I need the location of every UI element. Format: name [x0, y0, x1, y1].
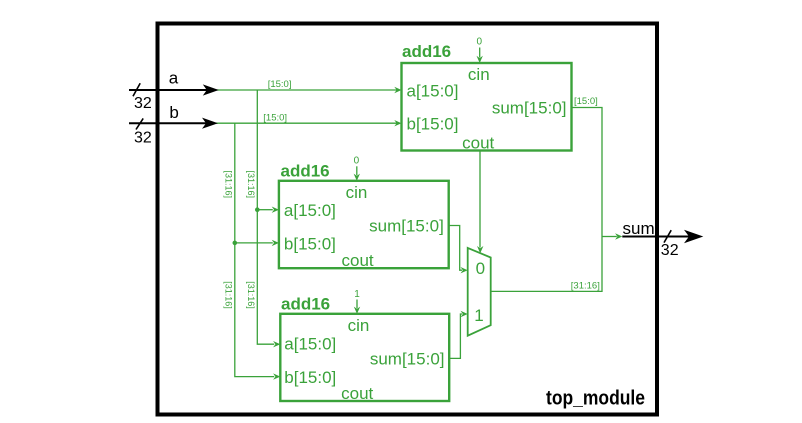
svg-text:1: 1: [354, 289, 360, 300]
outer border of top_module: [158, 24, 658, 415]
adder U1 type label add16: [402, 42, 451, 61]
svg-text:a[15:0]: a[15:0]: [407, 82, 459, 101]
wire label [31:16] on mux output wire: [571, 281, 600, 292]
svg-text:sum: sum: [623, 219, 655, 238]
input port a stub wire: [129, 84, 219, 95]
output bus-width label 32: [661, 242, 679, 259]
wire U3.sum to mux input 1: [449, 311, 468, 359]
pin label U1 cout: [462, 134, 494, 153]
wire label [15:0] on a wire: [268, 79, 292, 90]
pin label U3 cout: [341, 384, 373, 403]
svg-text:[31:16]: [31:16]: [571, 281, 600, 292]
input port a label: [169, 69, 179, 88]
output port sum label: [623, 219, 655, 238]
svg-text:add16: add16: [281, 161, 330, 180]
input a bus-width label 32: [134, 95, 152, 112]
wire b[31:16] vertical from b wire down to U3.b: [235, 123, 280, 380]
pin label U3 a[15:0]: [284, 334, 336, 353]
input b bus-width label 32: [134, 129, 152, 146]
svg-text:sum[15:0]: sum[15:0]: [369, 217, 444, 236]
pin label U3 b[15:0]: [284, 368, 336, 387]
mux M1 input label 1: [474, 306, 483, 325]
svg-text:b: b: [169, 103, 178, 122]
svg-text:[31:16]: [31:16]: [224, 281, 234, 309]
pin label U1 sum[15:0]: [492, 99, 567, 118]
constant 1 driving U3.cin: [354, 289, 360, 300]
wire label [15:0] on U1.sum wire: [574, 96, 598, 107]
svg-text:cin: cin: [468, 65, 490, 84]
wire constant 0 to U1.cin: [477, 48, 483, 64]
wire label [31:16] lower on a[31:16] line: [246, 281, 256, 309]
junction on a[31:16] line at U2.a branch: [255, 207, 260, 212]
wire label [31:16] lower on b[31:16] line: [224, 281, 234, 309]
pin label U2 cin: [346, 183, 368, 202]
svg-text:[15:0]: [15:0]: [574, 96, 598, 107]
pin label U3 sum[15:0]: [370, 350, 445, 369]
svg-text:add16: add16: [402, 42, 451, 61]
wire constant 1 to U3.cin: [354, 300, 360, 314]
constant 0 driving U2.cin: [354, 156, 360, 167]
wire branch a[31:16] to U2.a: [257, 207, 279, 213]
wire U2.sum to mux input 0: [449, 226, 468, 274]
pin label U1 b[15:0]: [407, 115, 459, 134]
output port sum stub wire: [622, 230, 703, 243]
pin label U2 cout: [342, 251, 374, 270]
pin label U1 cin: [468, 65, 490, 84]
wire label [15:0] on b wire: [263, 113, 287, 124]
wire b[15:0] from input b to U1.b: [212, 120, 402, 126]
wire label [31:16] upper on a[31:16] line: [246, 171, 256, 199]
junction on b[31:16] line at U2.b branch: [233, 241, 238, 246]
svg-text:b[15:0]: b[15:0]: [407, 115, 459, 134]
wire mux output [31:16] to output join: [491, 237, 602, 292]
pin label U2 a[15:0]: [284, 201, 336, 220]
adder U3 add16 (bottom) box: [280, 314, 449, 401]
wire join to output port sum: [602, 233, 622, 239]
svg-text:a[15:0]: a[15:0]: [284, 201, 336, 220]
svg-text:cout: cout: [462, 134, 494, 153]
svg-text:0: 0: [354, 156, 360, 167]
svg-text:[31:16]: [31:16]: [224, 171, 234, 199]
svg-text:cout: cout: [341, 384, 373, 403]
pin label U2 b[15:0]: [284, 234, 336, 253]
svg-text:a: a: [169, 69, 179, 88]
svg-text:sum[15:0]: sum[15:0]: [492, 99, 567, 118]
wire branch b[31:16] to U2.b: [235, 240, 279, 246]
constant 0 driving U1.cin: [477, 37, 483, 48]
svg-text:top_module: top_module: [546, 387, 645, 409]
wire a[15:0] from input a to U1.a: [212, 87, 402, 93]
mux M1 input label 0: [476, 259, 485, 278]
module name label top_module: [546, 387, 645, 409]
adder U2 add16 (middle) box: [279, 181, 449, 268]
svg-text:32: 32: [134, 95, 152, 112]
svg-text:[31:16]: [31:16]: [246, 171, 256, 199]
pin label U3 cin: [348, 316, 370, 335]
input port b label: [169, 103, 178, 122]
svg-text:a[15:0]: a[15:0]: [284, 334, 336, 353]
wire constant 0 to U2.cin: [354, 166, 360, 181]
svg-text:32: 32: [661, 242, 679, 259]
svg-text:0: 0: [476, 259, 485, 278]
pin label U2 sum[15:0]: [369, 217, 444, 236]
adder U2 type label add16: [281, 161, 330, 180]
svg-text:[15:0]: [15:0]: [263, 113, 287, 124]
svg-text:add16: add16: [281, 295, 330, 314]
input a bus-width slash: [133, 83, 140, 96]
wire U1.sum [15:0] to output join: [572, 108, 603, 237]
svg-text:cin: cin: [346, 183, 368, 202]
svg-text:[31:16]: [31:16]: [246, 281, 256, 309]
svg-text:1: 1: [474, 306, 483, 325]
svg-text:32: 32: [134, 129, 152, 146]
svg-text:b[15:0]: b[15:0]: [284, 234, 336, 253]
svg-text:sum[15:0]: sum[15:0]: [370, 350, 445, 369]
svg-text:0: 0: [477, 37, 483, 48]
pin label U1 a[15:0]: [407, 82, 459, 101]
mux M1 body: [468, 248, 491, 336]
svg-text:cout: cout: [342, 251, 374, 270]
svg-text:cin: cin: [348, 316, 370, 335]
input port b stub wire: [129, 118, 218, 129]
input b bus-width slash: [136, 118, 143, 129]
wire U1.cout to mux select: [477, 151, 483, 254]
adder U1 add16 (top) box: [402, 63, 572, 151]
wire label [31:16] upper on b[31:16] line: [224, 171, 234, 199]
adder U3 type label add16: [281, 295, 330, 314]
svg-text:[15:0]: [15:0]: [268, 79, 292, 90]
svg-text:b[15:0]: b[15:0]: [284, 368, 336, 387]
wire a[31:16] vertical from a wire down to U3.a: [257, 90, 280, 347]
output bus-width slash: [664, 230, 671, 242]
